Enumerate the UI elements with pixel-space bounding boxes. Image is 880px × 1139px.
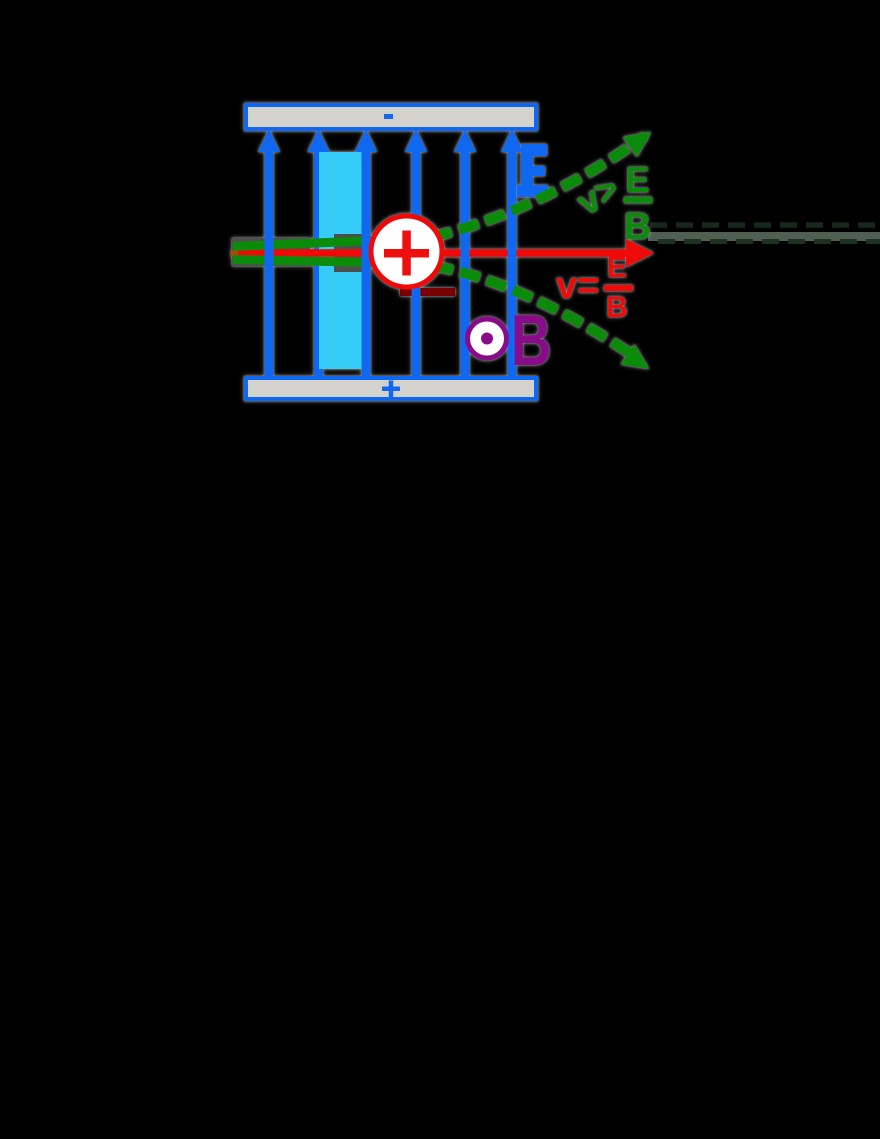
- B field out-of-page symbol: [465, 317, 509, 361]
- negative plate (top): [246, 105, 536, 129]
- green trajectory v&gt;E/B (upward): [432, 136, 645, 237]
- green incoming trajectory (lower): [233, 260, 374, 263]
- positive particle circle: [371, 216, 442, 287]
- red velocity arrow shaft: [233, 249, 627, 257]
- E field arrow 3: [355, 129, 377, 378]
- green incoming trajectory (upper): [233, 241, 374, 247]
- E field arrow 4: [405, 129, 427, 378]
- minus label on top plate: [384, 114, 393, 119]
- dark red segment under particle: [400, 288, 455, 296]
- svg-text:E: E: [625, 159, 649, 200]
- faint beam-axis halo band (far right): [648, 232, 880, 241]
- entrance slit halo knot: [334, 234, 366, 272]
- plus label on bottom plate: [382, 387, 400, 392]
- svg-text:E: E: [607, 251, 627, 284]
- plus sign of particle: [384, 249, 429, 258]
- red velocity arrow head: [626, 239, 654, 267]
- svg-text:B: B: [606, 291, 628, 324]
- svg-text:v=: v=: [556, 265, 599, 307]
- green trajectory v&lt;E/B (downward): [433, 266, 637, 358]
- red fraction bar: [604, 285, 633, 291]
- E field arrow 2: [308, 129, 330, 378]
- arrowhead of downward trajectory: [621, 344, 649, 369]
- cyan slit block: [319, 152, 362, 369]
- faint beam-axis dashed line (upper, far right): [650, 222, 880, 228]
- faint beam-axis dashed line (lower, far right): [658, 239, 880, 244]
- green fraction bar: [624, 197, 652, 203]
- positive plate (bottom): [246, 378, 536, 399]
- arrowhead of upward trajectory: [623, 132, 651, 157]
- svg-text:B: B: [624, 206, 651, 248]
- E field arrow 5: [454, 129, 476, 378]
- blue E field label: [517, 144, 548, 197]
- E field arrow 1: [258, 129, 280, 378]
- E field arrow 6: [501, 129, 523, 378]
- svg-text:B: B: [511, 300, 552, 380]
- entrance beam halo: [232, 238, 310, 266]
- orange dash at beam start: [231, 250, 238, 257]
